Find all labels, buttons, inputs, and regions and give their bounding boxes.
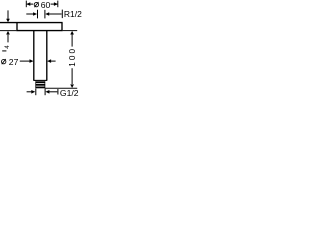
pipe left wall: [33, 31, 35, 81]
thread block with hatch bands: [35, 81, 45, 88]
dia 27 dimension: diameter symbol: [2, 59, 6, 64]
dia 60 dimension: left extension line: [25, 1, 27, 8]
dia 60 dimension: right arrow: [51, 3, 58, 5]
dia 60 dimension: left arrow: [27, 3, 33, 5]
flange (escutcheon) outline: [16, 23, 62, 31]
R1/2 stub dimension: left tick: [37, 10, 39, 19]
100 length dimension: line upper segment: [71, 34, 73, 46]
R1/2 stub dimension: right arrow: [49, 13, 62, 15]
G1/2 outlet dimension: left tick: [35, 89, 37, 96]
R1/2 stub dimension: right tick: [44, 10, 46, 19]
extension line right of thread bottom: [45, 87, 77, 89]
100 length dimension: line lower segment: [71, 68, 73, 84]
G1/2 outlet dimension: left arrow: [27, 91, 32, 93]
ceiling / flange top line: [0, 22, 63, 24]
100 length dimension: up arrow: [70, 31, 74, 35]
dia 60 dimension: right extension line: [57, 1, 59, 8]
svg-text:27: 27: [9, 57, 19, 67]
tick before G1/2 label: [57, 89, 59, 95]
G1/2 outlet dimension: right tick: [44, 89, 46, 96]
svg-text:G1/2: G1/2: [60, 88, 79, 98]
ceiling thickness dimension: up arrow: [7, 35, 9, 43]
dia 27 dimension: left arrow: [20, 60, 30, 62]
svg-text:100: 100: [68, 47, 77, 67]
ceiling thickness dimension: down arrow: [7, 10, 9, 19]
pipe bottom shoulder: [33, 79, 47, 81]
G1/2 outlet dimension: right arrow: [49, 91, 57, 93]
100 length dimension: down arrow: [70, 84, 74, 88]
extension line right of flange bottom: [63, 30, 78, 32]
dia 60 dimension: diameter symbol: [34, 2, 38, 7]
dia 27 dimension: right arrow: [51, 60, 56, 62]
R1/2 stub dimension: left arrow: [26, 13, 33, 15]
svg-text:R1/2: R1/2: [64, 9, 82, 19]
tick before R1/2 label: [61, 10, 63, 19]
extension line left of flange bottom: [0, 30, 16, 32]
svg-text:60: 60: [41, 0, 51, 10]
pipe right wall: [46, 31, 48, 81]
